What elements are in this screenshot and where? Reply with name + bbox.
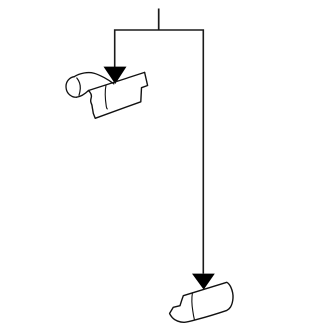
arrowhead bottom (points to lower insulator) [192,274,215,290]
part upper-left: fold line [105,85,107,109]
part upper-left: strap top edge curve [74,73,114,84]
leader line (horizontal bar with two drops) [115,30,204,274]
part lower-right: insulator outline [170,282,233,322]
part upper-left: plate outline with notch [89,72,148,118]
part upper-left: roll opening inner arc [77,78,81,95]
part upper-left: rolled end (tube curl) [66,77,77,98]
part upper-left: long diagonal edge to plate corner [77,72,145,97]
leader stub (top vertical tick) [158,9,160,31]
part lower-right: fold line [192,293,195,320]
arrowhead left (points to upper clamp) [104,67,127,84]
